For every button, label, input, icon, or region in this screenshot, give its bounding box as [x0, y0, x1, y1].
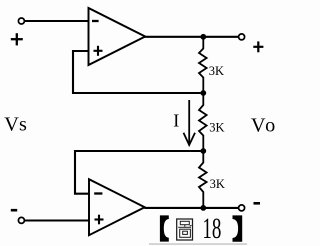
svg-text:3K: 3K	[209, 64, 224, 78]
terminal input plus	[18, 18, 24, 24]
svg-text:Vs: Vs	[4, 114, 27, 136]
node C junction	[200, 148, 206, 154]
label + at input top	[11, 33, 23, 45]
op-amp U1	[89, 8, 146, 65]
svg-text:Vo: Vo	[251, 115, 275, 137]
svg-text:I: I	[173, 110, 179, 130]
terminal input minus	[18, 217, 24, 223]
svg-text:18: 18	[202, 213, 221, 245]
wire U1 feedback	[73, 51, 201, 93]
resistor R3	[199, 151, 207, 208]
label + at output top	[253, 41, 263, 52]
caption bracket left	[160, 215, 169, 241]
svg-text:3K: 3K	[209, 121, 224, 135]
wire U2 output	[145, 207, 239, 209]
resistor R1	[199, 37, 207, 93]
wire U1 output	[145, 36, 239, 38]
terminal output plus	[239, 34, 245, 40]
terminal output minus	[239, 205, 245, 211]
resistor R2	[199, 93, 207, 151]
label - at input bottom	[11, 209, 17, 212]
caption bracket right	[233, 215, 243, 241]
caption glyph tu (figure)	[177, 219, 193, 240]
U2 non-inverting input marker	[95, 215, 104, 225]
U1 non-inverting input marker	[94, 46, 103, 56]
node D junction	[200, 205, 206, 211]
op-amp U2	[89, 179, 145, 235]
scan shadow under caption	[149, 243, 247, 245]
wire input+ to U1	[24, 20, 89, 22]
U1 inverting input marker	[92, 20, 99, 22]
node A junction	[200, 34, 206, 40]
node B junction	[200, 90, 206, 96]
current arrow I	[184, 100, 196, 145]
label - at output bottom	[254, 202, 261, 205]
wire input- to U2	[24, 219, 89, 221]
svg-text:3K: 3K	[210, 177, 225, 191]
U2 inverting input marker	[94, 192, 102, 194]
wire U2 feedback	[75, 151, 201, 194]
